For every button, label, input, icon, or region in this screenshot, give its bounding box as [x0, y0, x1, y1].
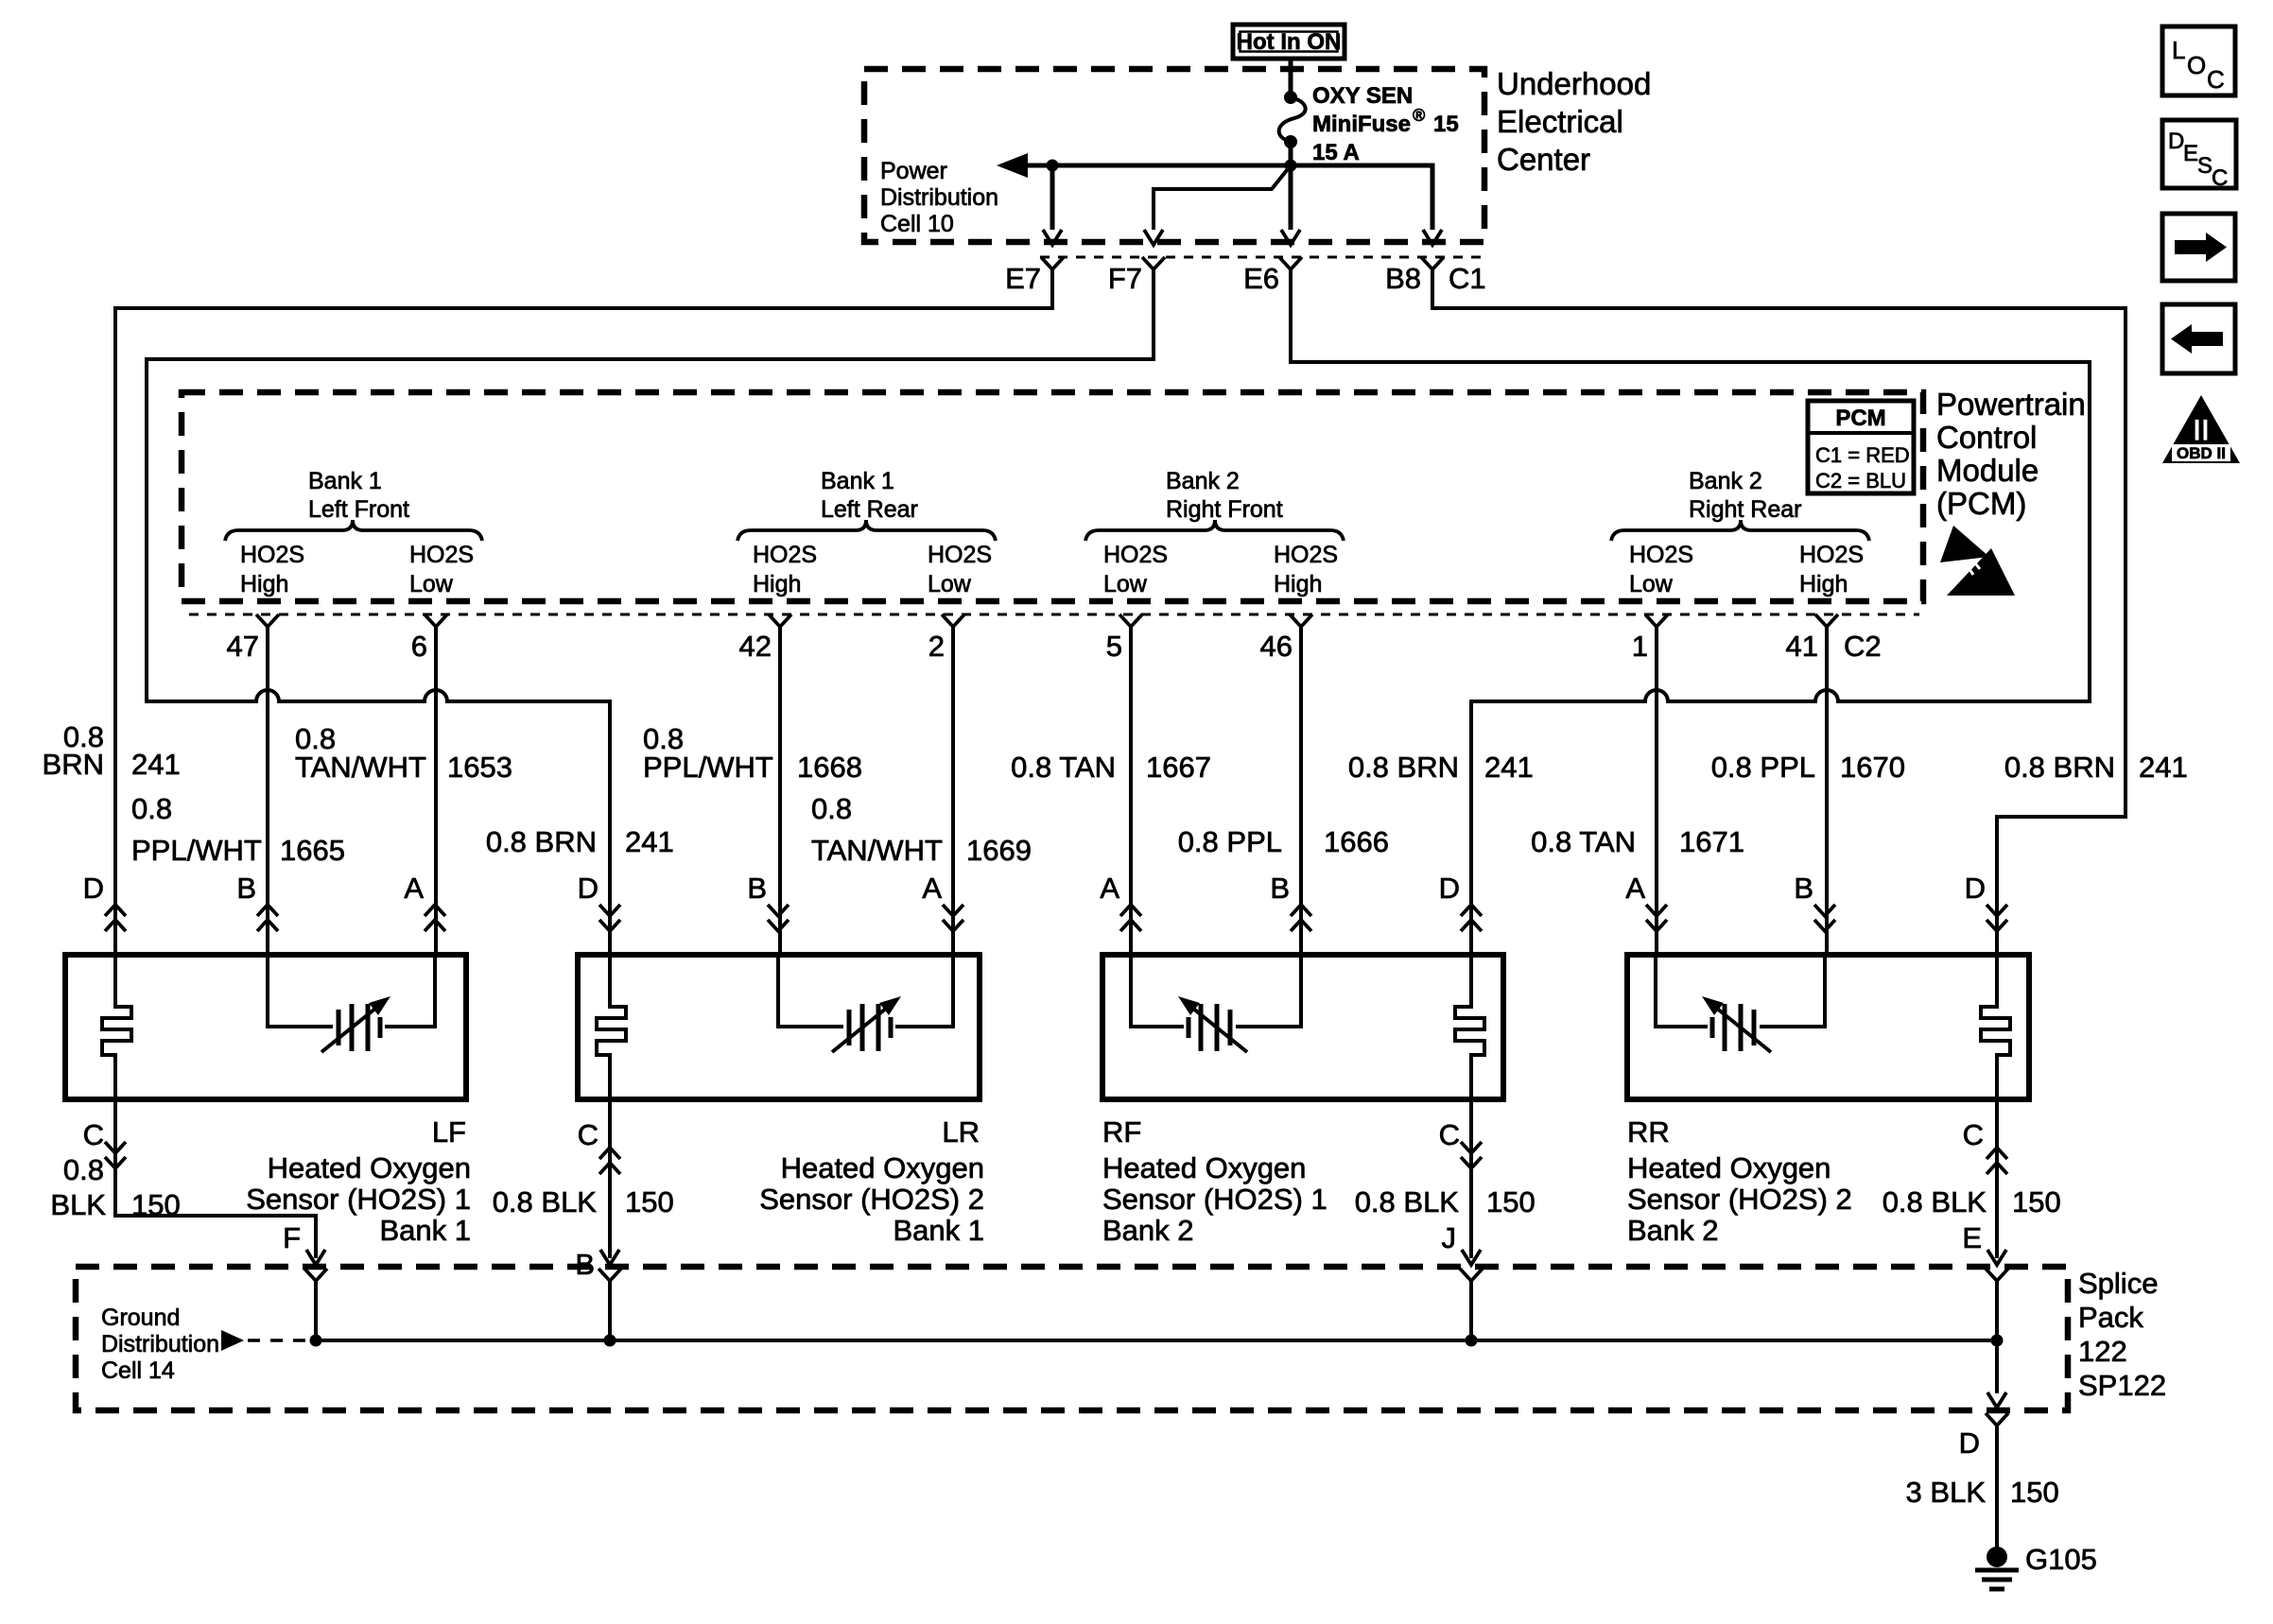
- feed bus inside UEC with left arrow: [997, 153, 1432, 178]
- Underhood Electrical Center dashed box: [864, 69, 1484, 242]
- svg-text:0.8 PPL: 0.8 PPL: [1178, 825, 1282, 858]
- heater element LF: [102, 955, 131, 1099]
- svg-text:0.8: 0.8: [131, 792, 172, 825]
- svg-text:J: J: [1442, 1221, 1457, 1254]
- svg-text:Sensor (HO2S) 2: Sensor (HO2S) 2: [1627, 1183, 1852, 1216]
- svg-text:B: B: [1794, 872, 1813, 905]
- svg-text:D: D: [1959, 1426, 1980, 1460]
- Underhood Electrical Center label: [1497, 66, 1651, 177]
- svg-text:Hot In ON: Hot In ON: [1237, 29, 1342, 55]
- Power Distribution Cell 10 label: [880, 158, 998, 237]
- svg-text:Low: Low: [928, 571, 972, 597]
- svg-text:SP122: SP122: [2078, 1369, 2166, 1402]
- svg-text:B: B: [236, 872, 256, 905]
- fuse OXY SEN MiniFuse 15 15A: [1279, 83, 1459, 165]
- wire fuse to E6 drop: [1289, 142, 1293, 230]
- wire label 0.8 BLK 150 (LR): [493, 1185, 674, 1218]
- svg-text:3 BLK: 3 BLK: [1906, 1476, 1987, 1509]
- arrow into E6: [1281, 230, 1300, 245]
- svg-text:Bank 1: Bank 1: [893, 1214, 984, 1247]
- connector B8: [1421, 257, 1444, 269]
- svg-text:C2: C2: [1844, 630, 1882, 663]
- svg-text:Bank 1: Bank 1: [379, 1214, 471, 1247]
- svg-text:L: L: [2172, 36, 2185, 64]
- wire from PCM pin 41 to sensor: [1825, 627, 1829, 955]
- PCM pin 6 connector: [425, 614, 447, 627]
- wire label 0.8 TAN/WHT 1669 (pin 2): [811, 792, 1032, 867]
- svg-text:1666: 1666: [1324, 825, 1389, 858]
- svg-text:PCM: PCM: [1835, 406, 1885, 431]
- svg-text:Bank 1: Bank 1: [308, 468, 382, 494]
- svg-text:Center: Center: [1497, 142, 1590, 177]
- svg-text:Power: Power: [880, 158, 947, 184]
- svg-text:Electrical: Electrical: [1497, 104, 1623, 139]
- svg-text:Left Rear: Left Rear: [821, 496, 918, 523]
- wire from PCM pin 47 to sensor: [266, 627, 269, 955]
- svg-text:Heated Oxygen: Heated Oxygen: [1102, 1151, 1306, 1184]
- svg-text:0.8 BLK: 0.8 BLK: [1883, 1185, 1987, 1218]
- svg-text:0.8 PPL: 0.8 PPL: [1711, 751, 1815, 784]
- svg-text:Sensor (HO2S) 1: Sensor (HO2S) 1: [1102, 1183, 1327, 1216]
- svg-text:B: B: [1270, 872, 1290, 905]
- wire label 0.8 BRN 241 (left E7 feed): [43, 720, 181, 781]
- wire from PCM pin 6 to sensor: [434, 627, 438, 955]
- svg-text:122: 122: [2078, 1335, 2127, 1368]
- svg-text:F: F: [283, 1221, 301, 1254]
- LR sensor name: [759, 1151, 984, 1247]
- svg-text:1665: 1665: [280, 834, 345, 867]
- svg-text:15 A: 15 A: [1312, 140, 1360, 165]
- svg-text:HO2S: HO2S: [1629, 542, 1693, 568]
- wire label 0.8 TAN 1671 (pin 1): [1531, 825, 1744, 858]
- wire B8 rail to RR sensor D: [1432, 269, 2126, 955]
- svg-text:High: High: [753, 571, 801, 597]
- right arrow icon: [2162, 214, 2235, 281]
- PCM pin 41 connector: [1815, 614, 1838, 627]
- svg-text:Low: Low: [1103, 571, 1148, 597]
- O2 sensing element RR: [1656, 955, 1825, 1052]
- DESC icon: [2162, 120, 2236, 191]
- arrow out of splice: [1987, 1392, 2006, 1408]
- wire from PCM pin 2 to sensor: [951, 627, 955, 955]
- wire from PCM pin 46 to sensor: [1299, 627, 1303, 955]
- PCM pin 2 connector: [942, 614, 964, 627]
- svg-text:1669: 1669: [966, 834, 1032, 867]
- svg-text:0.8 TAN: 0.8 TAN: [1531, 825, 1636, 858]
- wire drop to B8: [1291, 165, 1432, 230]
- svg-text:LR: LR: [942, 1115, 980, 1149]
- heater element RF: [1455, 955, 1484, 1099]
- ground G105: [1975, 1543, 2097, 1589]
- svg-text:A: A: [1625, 872, 1645, 905]
- wire label 0.8 TAN/WHT 1653 (pin 6): [295, 722, 512, 784]
- RF pin C wire to splice J: [1469, 1099, 1473, 1258]
- svg-text:Low: Low: [1629, 571, 1674, 597]
- svg-text:Powertrain: Powertrain: [1936, 387, 2086, 422]
- svg-text:Cell 14: Cell 14: [101, 1357, 175, 1384]
- UEC connector dotted line: [1040, 256, 1486, 259]
- svg-text:0.8: 0.8: [63, 1153, 104, 1186]
- svg-text:TAN/WHT: TAN/WHT: [295, 751, 426, 784]
- Powertrain Control Module (PCM) label: [1936, 387, 2086, 521]
- connector D below splice: [1986, 1413, 2008, 1425]
- svg-text:2: 2: [928, 630, 945, 663]
- O2 sensing element LR: [778, 955, 953, 1052]
- junction node B: [604, 1335, 616, 1347]
- svg-text:15: 15: [1433, 112, 1459, 137]
- PCM pin 5 connector: [1119, 614, 1142, 627]
- junction node at fuse output: [1285, 160, 1297, 172]
- svg-text:1653: 1653: [447, 751, 512, 784]
- svg-text:D: D: [2168, 129, 2184, 154]
- svg-text:6: 6: [411, 630, 427, 663]
- svg-text:150: 150: [2012, 1185, 2061, 1218]
- svg-text:B: B: [747, 872, 767, 905]
- svg-text:1: 1: [1632, 630, 1648, 663]
- svg-text:Distribution: Distribution: [101, 1331, 219, 1357]
- junction node at E7 drop: [1047, 160, 1059, 172]
- svg-text:Heated Oxygen: Heated Oxygen: [781, 1151, 984, 1184]
- splice connector B: [599, 1269, 621, 1281]
- B arrow into splice: [600, 1250, 619, 1265]
- svg-text:II: II: [2193, 413, 2210, 447]
- heater element RR: [1981, 955, 2010, 1099]
- wire drop to E7: [1050, 165, 1055, 230]
- PCM pin 46 connector: [1290, 614, 1312, 627]
- svg-text:Low: Low: [409, 571, 454, 597]
- svg-text:C: C: [1439, 1118, 1460, 1151]
- svg-text:OXY SEN: OXY SEN: [1312, 83, 1413, 109]
- svg-text:1671: 1671: [1679, 825, 1744, 858]
- svg-text:HO2S: HO2S: [1103, 542, 1168, 568]
- arrow into B8: [1423, 230, 1442, 245]
- junction node E: [1991, 1335, 2004, 1347]
- connector E6: [1279, 257, 1302, 269]
- connector E7: [1041, 257, 1064, 269]
- splice connector J: [1460, 1269, 1483, 1281]
- svg-text:Module: Module: [1936, 453, 2039, 488]
- svg-text:0.8: 0.8: [811, 792, 852, 825]
- svg-text:5: 5: [1106, 630, 1122, 663]
- PCM connector dotted line: [189, 613, 1919, 616]
- svg-text:1670: 1670: [1840, 751, 1905, 784]
- svg-text:0.8 BLK: 0.8 BLK: [493, 1185, 598, 1218]
- svg-text:C2 = BLU: C2 = BLU: [1815, 469, 1906, 492]
- Bank 1 Left Rear group label and brace: [737, 468, 996, 597]
- O2 sensing element RF: [1131, 955, 1301, 1052]
- svg-text:G105: G105: [2025, 1543, 2097, 1576]
- arrow into F7: [1144, 230, 1163, 245]
- E arrow into splice: [1987, 1250, 2006, 1265]
- svg-text:0.8 BLK: 0.8 BLK: [1355, 1185, 1460, 1218]
- connector F7: [1142, 257, 1165, 269]
- wire from PCM pin 5 to sensor: [1129, 627, 1133, 955]
- svg-text:D: D: [578, 872, 599, 905]
- svg-text:HO2S: HO2S: [240, 542, 304, 568]
- OBD II triangle icon: [2162, 395, 2240, 463]
- svg-text:Right Rear: Right Rear: [1689, 496, 1802, 523]
- Bank 2 Right Front group label and brace: [1085, 468, 1344, 597]
- svg-text:Right Front: Right Front: [1166, 496, 1283, 523]
- left arrow icon: [2162, 304, 2235, 373]
- svg-text:D: D: [1439, 872, 1460, 905]
- svg-text:C1 = RED: C1 = RED: [1815, 443, 1910, 467]
- svg-text:Splice: Splice: [2078, 1267, 2158, 1300]
- svg-text:OBD II: OBD II: [2177, 444, 2226, 462]
- splice connector E: [1986, 1269, 2008, 1281]
- RR pin C wire to splice E: [1995, 1099, 1999, 1258]
- svg-text:Bank 1: Bank 1: [821, 468, 894, 494]
- ESD sensitive device symbol: [1940, 526, 2015, 596]
- sensor box RR: [1627, 955, 2029, 1099]
- svg-text:Distribution: Distribution: [880, 184, 998, 211]
- wire label 0.8 BRN 241 (far right B8 feed): [2004, 751, 2188, 784]
- svg-text:TAN/WHT: TAN/WHT: [811, 834, 943, 867]
- wire label 0.8 PPL 1666 (pin 46): [1178, 825, 1389, 858]
- wire from Hot In ON to fuse: [1289, 59, 1293, 96]
- svg-text:O: O: [2187, 51, 2206, 79]
- svg-text:Sensor (HO2S) 2: Sensor (HO2S) 2: [759, 1183, 984, 1216]
- svg-text:C: C: [2212, 165, 2228, 191]
- svg-text:D: D: [83, 872, 104, 905]
- wire drop to F7: [1154, 165, 1291, 230]
- wire label 0.8 PPL 1670 (pin 41): [1711, 751, 1905, 784]
- Bank 1 Left Front group label and brace: [225, 468, 482, 597]
- svg-text:241: 241: [131, 748, 181, 781]
- wire from PCM pin 1 to sensor: [1655, 627, 1658, 955]
- svg-text:Sensor (HO2S) 1: Sensor (HO2S) 1: [246, 1183, 471, 1216]
- PCM pin 42 connector: [769, 614, 791, 627]
- svg-text:241: 241: [625, 825, 674, 858]
- svg-text:LF: LF: [432, 1115, 466, 1149]
- svg-text:D: D: [1965, 872, 1986, 905]
- svg-text:41: 41: [1786, 630, 1818, 663]
- wire label 0.8 PPL/WHT 1665 (pin 47): [131, 792, 345, 867]
- svg-text:241: 241: [1484, 751, 1534, 784]
- svg-text:46: 46: [1260, 630, 1293, 663]
- wire label 0.8 BLK 150 (RR): [1883, 1185, 2061, 1218]
- Splice Pack dashed box: [76, 1267, 2068, 1410]
- svg-text:0.8 BRN: 0.8 BRN: [2004, 751, 2115, 784]
- svg-text:HO2S: HO2S: [409, 542, 474, 568]
- svg-text:A: A: [404, 872, 424, 905]
- svg-text:Cell 10: Cell 10: [880, 211, 954, 237]
- RR sensor name: [1627, 1151, 1852, 1247]
- svg-text:HO2S: HO2S: [753, 542, 817, 568]
- heater element LR: [597, 955, 626, 1099]
- svg-text:(PCM): (PCM): [1936, 486, 2026, 521]
- sensor box LR: [578, 955, 980, 1099]
- svg-text:Underhood: Underhood: [1497, 66, 1651, 101]
- wire F7 rail to LR sensor D (jumps over pins 47,6): [147, 269, 1154, 955]
- svg-text:BLK: BLK: [50, 1188, 106, 1221]
- svg-text:RR: RR: [1627, 1115, 1670, 1149]
- wire label 0.8 BRN 241 (LR D feed): [486, 825, 674, 858]
- svg-text:Control: Control: [1936, 420, 2037, 455]
- PCM pin 1 connector: [1645, 614, 1668, 627]
- svg-text:MiniFuse: MiniFuse: [1312, 112, 1411, 137]
- svg-text:C1: C1: [1449, 262, 1486, 295]
- svg-text:Left Front: Left Front: [308, 496, 409, 523]
- J arrow into splice: [1462, 1250, 1481, 1265]
- svg-text:Ground: Ground: [101, 1304, 180, 1331]
- svg-text:S: S: [2197, 153, 2212, 179]
- svg-text:BRN: BRN: [43, 748, 104, 781]
- svg-text:150: 150: [625, 1185, 674, 1218]
- Powertrain Control Module dashed box: [182, 392, 1923, 601]
- svg-text:241: 241: [2139, 751, 2188, 784]
- svg-text:C: C: [2207, 65, 2225, 94]
- wire from PCM pin 42 to sensor: [778, 627, 782, 955]
- svg-text:RF: RF: [1102, 1115, 1141, 1149]
- Ground Distribution Cell 14 label and arrow: [101, 1304, 312, 1384]
- svg-text:High: High: [240, 571, 288, 597]
- arrow into E7: [1043, 230, 1062, 245]
- splice connector F: [304, 1269, 327, 1281]
- junction node J: [1466, 1335, 1478, 1347]
- svg-text:PPL/WHT: PPL/WHT: [643, 751, 773, 784]
- svg-text:C: C: [83, 1118, 104, 1151]
- wire label 0.8 BLK 150 (LF): [50, 1153, 180, 1221]
- sensor box RF: [1102, 955, 1503, 1099]
- wire label 0.8 PPL/WHT 1668 (pin 42): [643, 722, 862, 784]
- PCM pin 47 connector: [256, 614, 279, 627]
- svg-text:42: 42: [739, 630, 772, 663]
- svg-text:C: C: [1963, 1118, 1984, 1151]
- PCM connector color legend box: [1808, 401, 1914, 493]
- svg-text:PPL/WHT: PPL/WHT: [131, 834, 262, 867]
- svg-text:A: A: [1100, 872, 1119, 905]
- svg-text:F7: F7: [1108, 262, 1142, 295]
- wire label 0.8 TAN 1667 (pin 5): [1011, 751, 1211, 784]
- svg-text:Bank 2: Bank 2: [1166, 468, 1240, 494]
- svg-text:E: E: [2183, 141, 2198, 166]
- Splice Pack 122 SP122 label: [2078, 1267, 2166, 1402]
- svg-text:HO2S: HO2S: [1799, 542, 1864, 568]
- svg-text:1668: 1668: [797, 751, 862, 784]
- Hot In ON box: [1233, 25, 1345, 59]
- wire label 0.8 BLK 150 (RF): [1355, 1185, 1536, 1218]
- LOC icon: [2162, 26, 2235, 95]
- svg-text:®: ®: [1413, 106, 1425, 125]
- svg-text:HO2S: HO2S: [928, 542, 992, 568]
- svg-text:Heated Oxygen: Heated Oxygen: [268, 1151, 471, 1184]
- svg-text:E: E: [1962, 1221, 1982, 1254]
- svg-text:0.8 BRN: 0.8 BRN: [486, 825, 597, 858]
- svg-text:150: 150: [2010, 1476, 2059, 1509]
- sensor box LF: [65, 955, 466, 1099]
- LR pin C wire to splice B: [608, 1099, 612, 1258]
- LF sensor name: [246, 1151, 471, 1247]
- svg-text:150: 150: [131, 1188, 181, 1221]
- Bank 2 Right Rear group label and brace: [1611, 468, 1869, 597]
- svg-text:High: High: [1799, 571, 1848, 597]
- svg-text:A: A: [922, 872, 942, 905]
- svg-text:Heated Oxygen: Heated Oxygen: [1627, 1151, 1831, 1184]
- svg-text:High: High: [1274, 571, 1322, 597]
- wire splice to D connector: [1995, 1340, 1999, 1393]
- svg-text:HO2S: HO2S: [1274, 542, 1338, 568]
- svg-text:150: 150: [1486, 1185, 1536, 1218]
- F arrow into splice: [306, 1250, 325, 1265]
- svg-text:1667: 1667: [1146, 751, 1211, 784]
- wire label 0.8 BRN 241 (RF D feed): [1348, 751, 1534, 784]
- svg-text:B8: B8: [1385, 262, 1421, 295]
- svg-text:0.8 BRN: 0.8 BRN: [1348, 751, 1459, 784]
- wire label 3 BLK 150: [1906, 1476, 2059, 1509]
- O2 sensing element LF: [268, 955, 435, 1052]
- LF pin C wire with jog to splice F: [115, 1099, 316, 1258]
- svg-text:Bank 2: Bank 2: [1627, 1214, 1719, 1247]
- svg-text:C: C: [578, 1118, 599, 1151]
- RF sensor name: [1102, 1151, 1327, 1247]
- svg-text:0.8 TAN: 0.8 TAN: [1011, 751, 1116, 784]
- svg-text:E6: E6: [1243, 262, 1279, 295]
- svg-text:47: 47: [227, 630, 259, 663]
- junction node F: [310, 1335, 322, 1347]
- svg-text:Bank 2: Bank 2: [1689, 468, 1762, 494]
- svg-text:E7: E7: [1005, 262, 1041, 295]
- wire E6 rail to RF sensor D (jumps over pins 1,41): [1291, 269, 2090, 955]
- splice bus wire SP122: [316, 1339, 1997, 1342]
- wire E7 rail to LF sensor D: [115, 269, 1052, 955]
- svg-text:Bank 2: Bank 2: [1102, 1214, 1194, 1247]
- svg-text:Pack: Pack: [2078, 1301, 2143, 1334]
- wire D to ground: [1995, 1425, 1999, 1550]
